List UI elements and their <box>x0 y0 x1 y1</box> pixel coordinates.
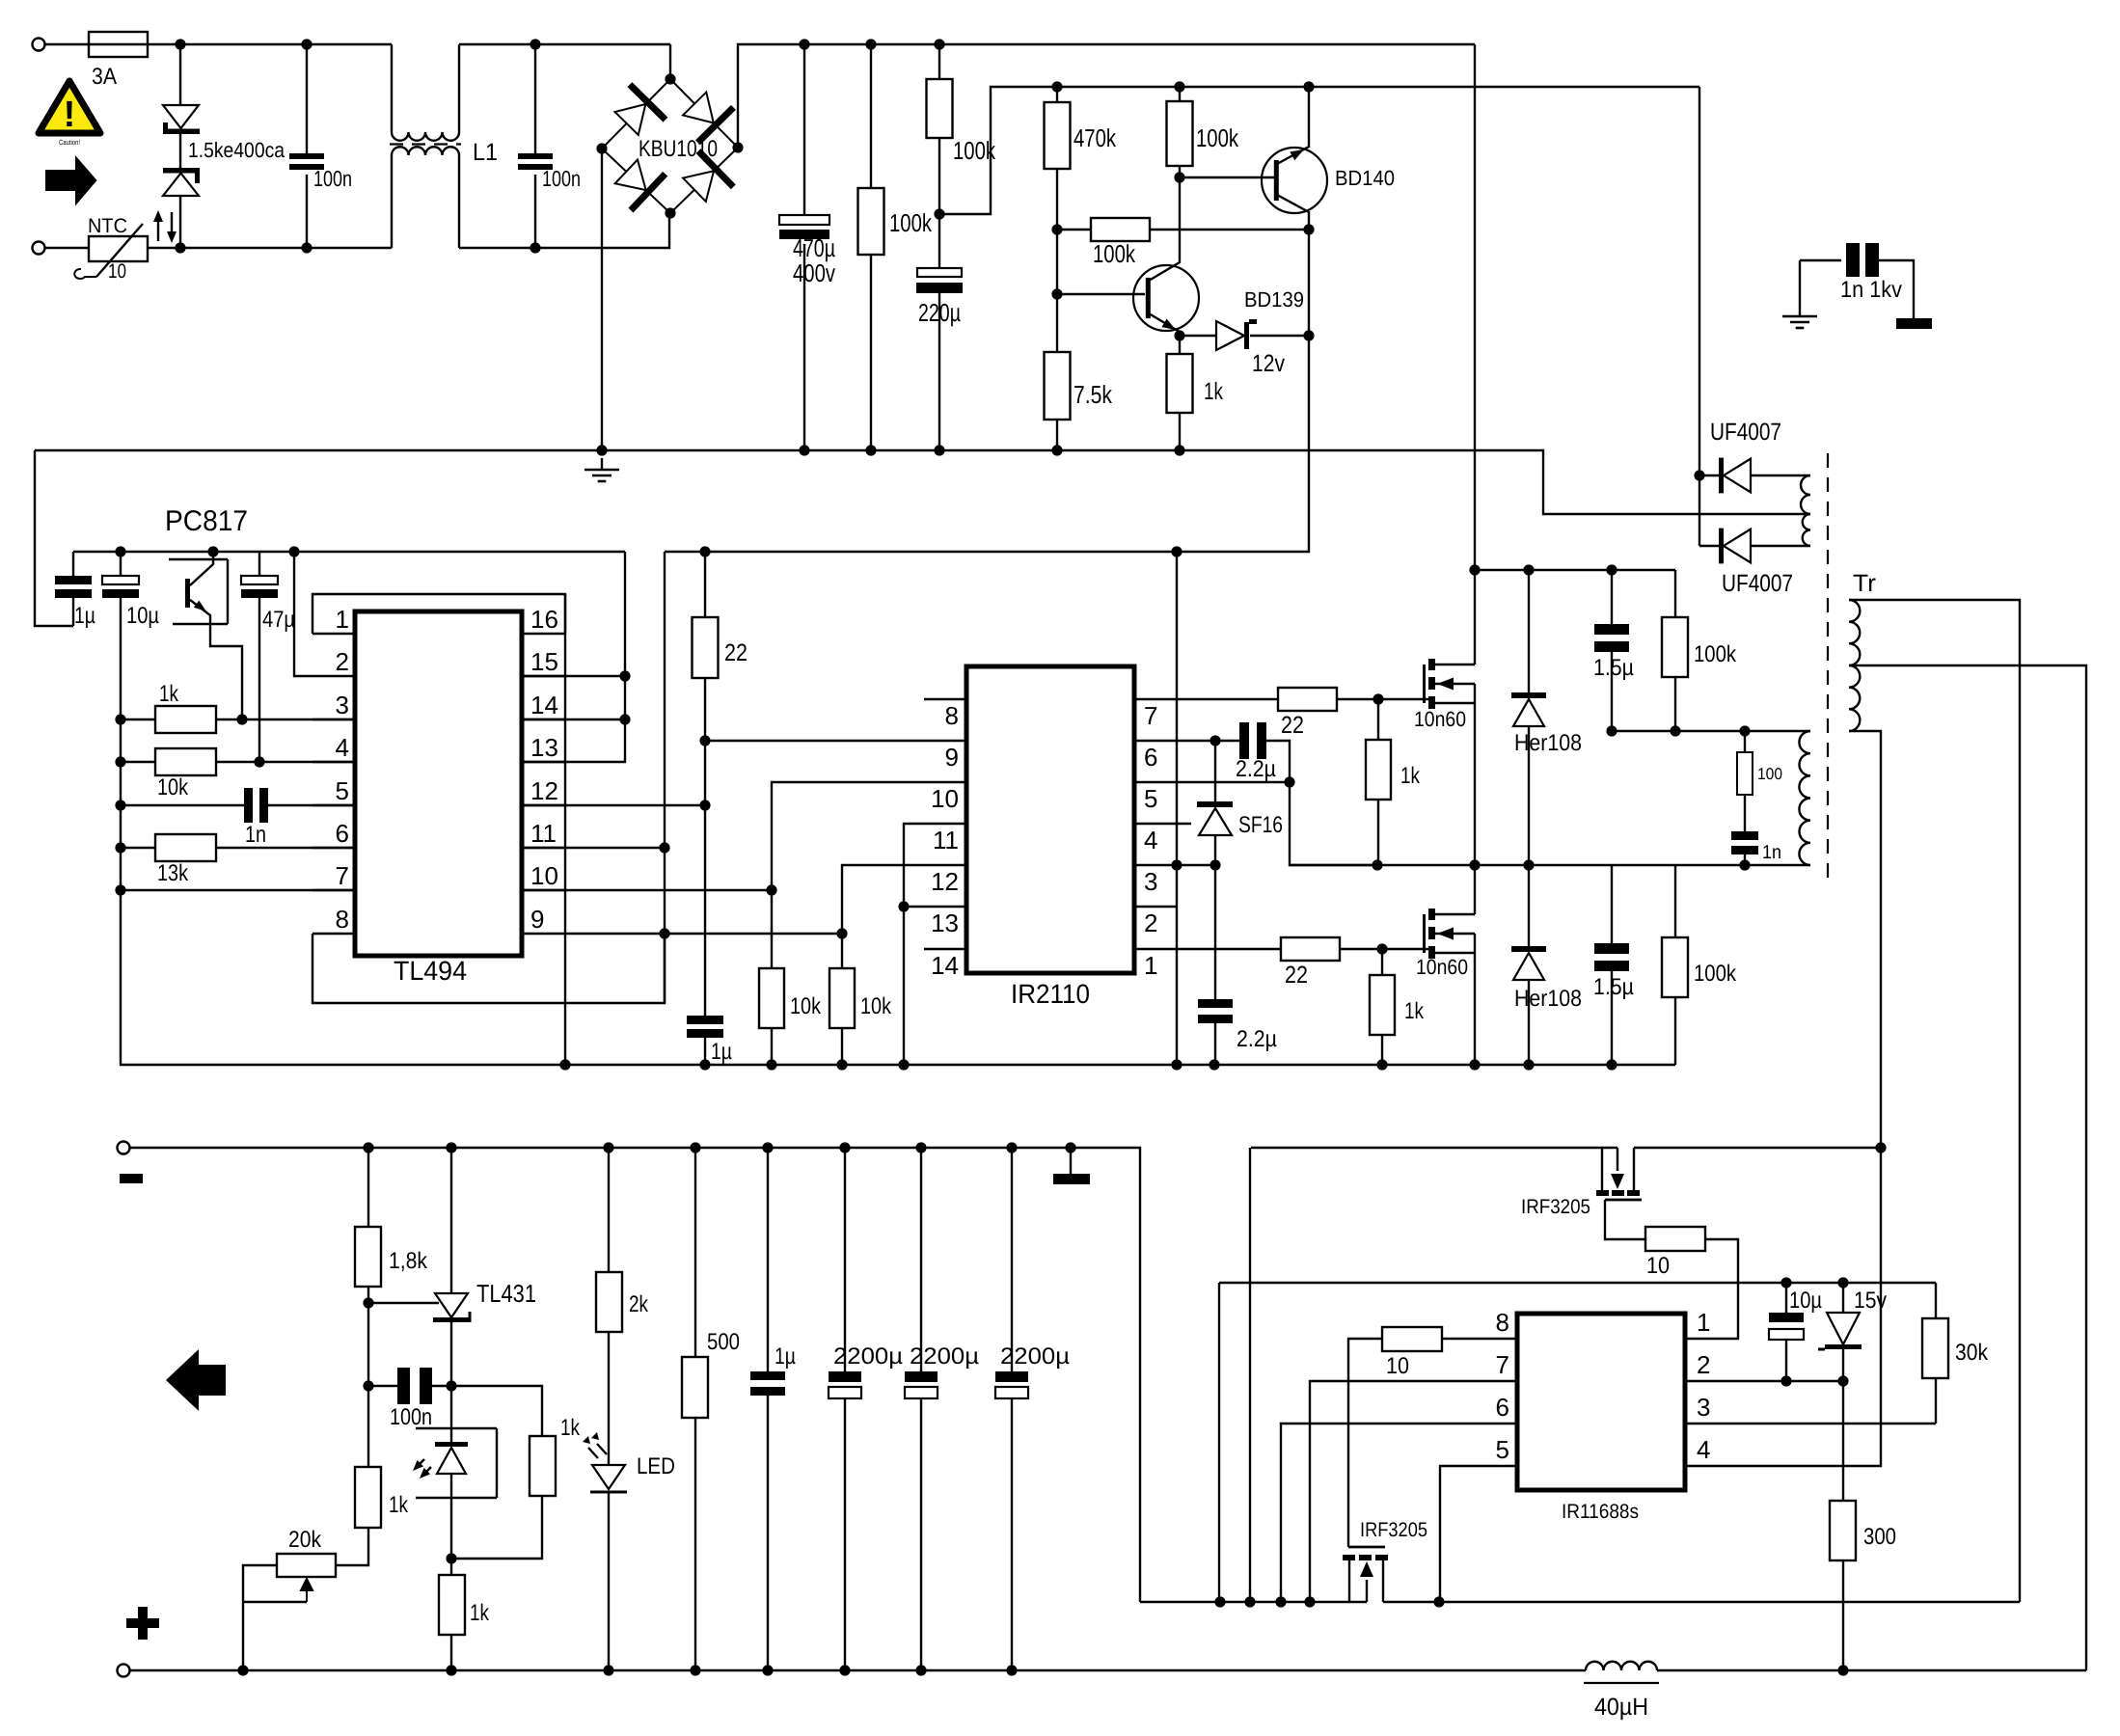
svg-text:1n 1kv: 1n 1kv <box>1840 277 1902 303</box>
dot 100k dropper rail <box>934 39 944 49</box>
wire pin15 to column <box>522 675 625 677</box>
resistor 22 gate bottom <box>1281 937 1340 961</box>
wire aux rail right to pin11 column <box>664 552 666 1003</box>
svg-text:4: 4 <box>336 733 349 762</box>
svg-text:1k: 1k <box>470 1600 490 1626</box>
wire 30k top lead <box>1935 1283 1937 1318</box>
svg-text:1k: 1k <box>560 1415 581 1441</box>
label 22 gate bottom <box>1285 962 1308 989</box>
wire IR2110 pin11 to SD column <box>904 824 966 1065</box>
dot opto LED bottom node <box>446 1553 456 1563</box>
wire 1k fb top <box>367 1386 369 1467</box>
pin number 7 IR2110 <box>1144 701 1157 730</box>
wire 100n#2 top lead <box>534 44 536 153</box>
wire ref node down <box>367 1303 369 1386</box>
fuse F1 3A <box>89 32 148 57</box>
junction dots on top rail <box>175 39 540 49</box>
wire 10u2 bottom lead <box>1785 1340 1787 1381</box>
wire TL431 anode <box>450 1322 452 1386</box>
bridge diode bottom-right arm <box>683 151 733 202</box>
capacitor 1.5u bottom <box>1594 943 1629 971</box>
svg-text:6: 6 <box>336 819 349 848</box>
label 300 <box>1863 1524 1896 1550</box>
wire IR2110 pin12 from TL494 pin9 <box>842 865 966 934</box>
pin number 11 IR2110 <box>933 826 959 854</box>
label 220u <box>918 298 961 327</box>
wire 1.5u bottom bottom lead <box>1611 971 1613 1065</box>
wire x586 vertical to ground rail <box>564 594 566 1065</box>
wire row5 right <box>268 804 355 806</box>
svg-text:NTC: NTC <box>88 215 127 237</box>
capacitor 100n comp <box>397 1368 432 1404</box>
pin number 2 IR2110 <box>1144 909 1157 937</box>
wire 1n bottom lead <box>1744 854 1746 865</box>
svg-text:2.2µ: 2.2µ <box>1236 756 1276 782</box>
label 1.5u top <box>1593 655 1634 681</box>
wire pin10 row to IR2110 pin10 riser <box>522 889 772 891</box>
svg-text:3: 3 <box>336 691 349 719</box>
dot BD139 emitter node <box>1174 330 1184 340</box>
label 1k gs top <box>1400 763 1421 789</box>
wire IR2110 pin3 row <box>1134 864 1215 866</box>
dot SF16 pin3 junction <box>1209 859 1220 870</box>
dots pins15/14 column <box>619 670 630 724</box>
wire pin12 row to VCC node <box>522 804 705 806</box>
wire column to signal ground rail <box>121 890 564 1065</box>
wire opto LED bottom <box>450 1474 452 1559</box>
dot 100k bleeder rail <box>865 39 876 49</box>
svg-text:TL431: TL431 <box>476 1279 536 1308</box>
wire pin9 row <box>522 933 665 935</box>
resistor 470k <box>1045 102 1071 169</box>
svg-text:10k: 10k <box>860 993 892 1019</box>
wire IR2110 pin7 HO to gate resistor <box>1134 698 1278 700</box>
wire BD140 collector node down <box>1308 230 1310 336</box>
wire gate resistor to gate node <box>1337 698 1428 700</box>
svg-text:1: 1 <box>1144 951 1157 980</box>
TVS diode D1 1.5ke400ca upper <box>163 105 200 134</box>
wire 470u bottom <box>803 244 805 450</box>
pin number 4 TL494 <box>336 733 349 762</box>
wire BD140 collector down across <box>1308 336 1310 450</box>
wire UF4007 bottom to winding <box>1751 545 1810 547</box>
wire to UF4007 bottom <box>1699 545 1721 547</box>
resistor 100k snubber bottom <box>1662 937 1688 997</box>
wire 100 to 1n <box>1744 795 1746 831</box>
wire 300 bottom <box>1842 1560 1844 1670</box>
node output minus terminal <box>118 1142 130 1154</box>
svg-text:470k: 470k <box>1074 123 1117 152</box>
wire 1k bottom <box>1179 413 1181 450</box>
sync common rail dots <box>1214 1596 1444 1607</box>
wire pin1 to pin16 loop <box>313 594 565 634</box>
label 100 snubber <box>1757 765 1782 783</box>
wire 2.2u lower to ground <box>1214 1023 1216 1065</box>
capacitor 1n 1kv <box>1846 243 1879 277</box>
wire IR2110 pin10 from TL494 pin10 <box>772 782 966 890</box>
svg-text:7: 7 <box>336 861 349 890</box>
svg-text:3A: 3A <box>92 64 117 90</box>
wire ref to TL431 <box>368 1302 439 1304</box>
label 1.5u bottom <box>1593 974 1634 1000</box>
resistor 10k pulldown #1 <box>759 968 784 1028</box>
wire 100n#2 bottom lead <box>534 175 536 248</box>
wire primary top row <box>1612 730 1810 732</box>
pin number 8 IR2110 <box>945 701 959 730</box>
capacitor 2200u #1 <box>829 1371 861 1398</box>
svg-text:10: 10 <box>1386 1353 1409 1379</box>
transformer Tr primary winding <box>1799 731 1810 865</box>
wire plus rail left <box>130 1669 1587 1671</box>
label 7.5k <box>1074 380 1113 409</box>
svg-text:22: 22 <box>724 639 747 666</box>
resistor 13k (TL494 pin6) <box>155 834 216 861</box>
arrows surge up/down <box>153 210 177 243</box>
wire 20k wiper <box>243 1601 307 1603</box>
wire 10u top lead <box>120 552 122 576</box>
wire top vertex drop <box>669 44 671 79</box>
dot pin10 riser junction <box>766 884 776 895</box>
wire row4 right <box>216 761 355 763</box>
resistor 10 gate #1 <box>1645 1227 1705 1251</box>
svg-text:1k: 1k <box>389 1492 409 1518</box>
pin number 12 IR2110 <box>931 867 959 896</box>
vref rail dots <box>115 546 299 556</box>
capacitor 1.5u top <box>1594 624 1629 652</box>
svg-text:IR11688s: IR11688s <box>1562 1501 1639 1523</box>
dot aux rail TL494 riser <box>1171 546 1182 556</box>
wire IR11688 pin5 <box>1440 1466 1517 1602</box>
label LED <box>637 1453 675 1479</box>
label Her108 bottom <box>1514 986 1582 1012</box>
svg-text:1n: 1n <box>245 822 266 848</box>
dot collector/zener node <box>1303 224 1314 340</box>
wire primary ground rail <box>35 450 1810 514</box>
wire 2.2u to VS <box>1266 741 1290 782</box>
wire vcc line 1330 <box>1219 1282 1936 1284</box>
svg-text:1,8k: 1,8k <box>389 1248 428 1274</box>
svg-text:9: 9 <box>945 743 959 772</box>
label 10k #1 <box>790 993 822 1019</box>
wire Her108 bottom cathode <box>1528 865 1530 946</box>
regulator TL431 <box>433 1293 470 1322</box>
dot 47u junction row4 <box>254 756 264 767</box>
bridge diode top-right arm <box>683 93 733 143</box>
resistor 100k snubber top <box>1662 617 1688 677</box>
wire 1u VCC bottom <box>704 1038 706 1065</box>
wire 10#1 to IR11688 pin1 <box>1686 1239 1738 1339</box>
svg-text:100n: 100n <box>390 1404 432 1430</box>
terminal bar chassis <box>1896 318 1932 329</box>
label 400v <box>793 258 835 287</box>
arrow symbol output direction <box>166 1349 226 1411</box>
wire junction to aux rail riser <box>939 87 1057 214</box>
label 10u sync <box>1789 1288 1822 1314</box>
wire aux 12v to left rail <box>1177 450 1309 552</box>
pin number 1 TL494 <box>336 605 349 634</box>
svg-text:L1: L1 <box>473 139 498 166</box>
svg-text:IR2110: IR2110 <box>1011 979 1090 1009</box>
wire 1k low top <box>450 1559 452 1575</box>
wire vcc line drop left <box>1218 1283 1220 1602</box>
svg-text:SF16: SF16 <box>1238 812 1283 838</box>
label 1k fb <box>389 1492 409 1518</box>
wire top rail to TVS D1 <box>179 44 181 104</box>
label 10k row4 <box>157 774 189 800</box>
wire 2200u#1 bottom <box>844 1398 846 1670</box>
wire 2200u#2 top <box>920 1148 922 1371</box>
label 10 (NTC value) <box>108 260 126 283</box>
svg-text:5: 5 <box>1144 784 1157 813</box>
inductor 40uH <box>1584 1662 1659 1683</box>
wire row3 right <box>216 719 355 720</box>
minus rail dots <box>363 1142 1075 1153</box>
svg-text:12v: 12v <box>1252 350 1285 377</box>
wire IR11688 pin7 <box>1310 1381 1517 1602</box>
svg-text:2k: 2k <box>629 1291 649 1317</box>
label 2.2u lower <box>1237 1026 1277 1052</box>
wire 220u top lead <box>938 214 940 268</box>
svg-text:!: ! <box>64 95 76 135</box>
svg-text:16: 16 <box>530 605 558 634</box>
pin number 12 TL494 <box>530 776 558 805</box>
wire 1k top <box>1179 336 1181 354</box>
thermistor NTC 10 <box>74 224 148 279</box>
wire zener to BD140 collector line <box>1250 335 1309 337</box>
label PC817 <box>165 505 248 537</box>
wire 47u top lead <box>258 552 260 576</box>
svg-text:2: 2 <box>336 647 349 676</box>
wire HV snubber row <box>1475 569 1675 571</box>
resistor 1k (TL494 pin3) <box>155 706 216 733</box>
dots vcc line <box>1780 1277 1848 1288</box>
TL494 left pin stubs <box>313 634 355 934</box>
svg-text:100k: 100k <box>1196 123 1239 152</box>
pin number 2 TL494 <box>336 647 349 676</box>
wire 100k top (BD139 load) <box>1179 87 1181 101</box>
resistor 1k gate-source top <box>1366 740 1391 800</box>
pin number 10 IR2110 <box>931 784 959 813</box>
wire 10k#2 bottom <box>841 1028 843 1065</box>
label 470u <box>793 233 835 262</box>
svg-text:10k: 10k <box>157 774 189 800</box>
resistor 100k BD139 load <box>1167 101 1193 166</box>
svg-text:TL494: TL494 <box>394 956 467 986</box>
wire 2200u#2 bottom <box>920 1398 922 1670</box>
pin number 13 IR2110 <box>931 909 959 937</box>
label 13k row6 <box>157 860 189 886</box>
wire HV to top MOSFET drain <box>1474 570 1476 665</box>
pin number 15 TL494 <box>530 647 558 676</box>
svg-text:BD139: BD139 <box>1244 287 1304 312</box>
label 1u out <box>775 1343 796 1370</box>
svg-text:7.5k: 7.5k <box>1074 380 1113 409</box>
op-amp IC TL494 box <box>355 611 522 956</box>
wire 100k snubber bottom top lead <box>1674 865 1676 937</box>
wire NTC to L1 bottom <box>148 247 392 249</box>
label 100k dropper <box>953 136 996 165</box>
svg-text:Her108: Her108 <box>1514 730 1582 756</box>
wire L1 top winding out <box>458 44 460 132</box>
capacitor 2.2u lower <box>1198 999 1233 1023</box>
label 2200u #1 <box>833 1343 903 1370</box>
wire N terminal to NTC <box>45 247 90 249</box>
transformer core line <box>1827 453 1829 880</box>
wire SF16 anode down <box>1214 835 1216 865</box>
svg-text:14: 14 <box>530 691 558 719</box>
label UF4007 bottom <box>1722 570 1793 597</box>
wire Her108 top cathode <box>1528 570 1530 692</box>
wire 220u bottom lead <box>938 293 940 450</box>
wire aux 12v rail left portion <box>665 551 1177 553</box>
svg-text:400v: 400v <box>793 258 835 287</box>
label 470k <box>1074 123 1117 152</box>
label 1n 1kv <box>1840 277 1902 303</box>
pin number 4 IR11688s <box>1697 1435 1710 1464</box>
potentiometer 20k <box>277 1554 336 1602</box>
label 2200u #2 <box>910 1343 979 1370</box>
wire opto LED top <box>450 1386 452 1445</box>
dot tl431 ref node <box>363 1297 373 1308</box>
dot aux rect node <box>1694 470 1704 480</box>
TVS diode D2 1.5ke400ca lower <box>163 168 200 196</box>
label 47u <box>262 607 295 633</box>
svg-text:IRF3205: IRF3205 <box>1521 1196 1590 1218</box>
capacitor 2200u #3 <box>995 1371 1028 1398</box>
node AC line input terminal N <box>33 242 45 255</box>
resistor 1k low <box>439 1575 465 1635</box>
label 15v <box>1854 1288 1887 1314</box>
svg-text:8: 8 <box>1496 1308 1509 1337</box>
label 2.2u top <box>1236 756 1276 782</box>
dot 100n right node <box>446 1380 456 1391</box>
core lines of L1 <box>390 143 461 145</box>
svg-text:9: 9 <box>530 905 544 934</box>
dot BD140 base node <box>1174 172 1184 182</box>
resistor 30k <box>1922 1318 1948 1378</box>
wire 1n1kv left lead <box>1800 259 1841 261</box>
wire IR2110 pin10 10k pulldown lead <box>771 890 773 968</box>
wire 10u2 top lead <box>1785 1283 1787 1313</box>
wire 1u top lead <box>72 552 74 576</box>
wire phase node row <box>1290 864 1810 866</box>
wire L1 to bridge top corner <box>459 43 670 45</box>
wire minus tap stub <box>1070 1148 1072 1174</box>
wire SF16 column to 2.2u lower <box>1214 865 1216 999</box>
svg-text:2200µ: 2200µ <box>833 1343 903 1370</box>
wire BD139 base <box>1057 293 1145 295</box>
wire phase to bottom MOSFET drain <box>1474 865 1476 914</box>
dot PC817 emitter junction <box>236 714 247 724</box>
svg-text:14: 14 <box>931 951 959 980</box>
wire 1k par bottom <box>451 1496 542 1559</box>
dot 100k/220u junction <box>934 208 944 219</box>
wire 100n right lead <box>432 1385 451 1387</box>
label 1n row5 <box>245 822 266 848</box>
label plus symbol <box>126 1607 159 1640</box>
wire row3 left <box>121 719 155 720</box>
aux rail dots <box>1051 81 1314 92</box>
pin number 13 TL494 <box>530 733 558 762</box>
svg-text:11: 11 <box>530 819 557 848</box>
pin number 5 IR11688s <box>1496 1435 1509 1464</box>
svg-text:10k: 10k <box>790 993 822 1019</box>
wire secondary bottom tap <box>1849 731 1881 1148</box>
wire 10k#2 top lead <box>841 934 843 968</box>
svg-text:4: 4 <box>1144 826 1157 854</box>
caution triangle sign <box>39 81 100 147</box>
wire bridge - to primary ground <box>601 149 603 450</box>
wire 30k bottom lead <box>1935 1378 1937 1424</box>
wire 22ohm to VCC node <box>704 678 706 1016</box>
label BD139 <box>1244 287 1304 312</box>
wire emitter node to zener <box>1180 335 1215 337</box>
pin number 1 IR2110 <box>1144 951 1157 980</box>
resistor 1k feedback <box>355 1467 381 1528</box>
label 1k par <box>560 1415 581 1441</box>
wire 470k junction to 100k-h <box>1057 229 1091 231</box>
wire L1 to bridge bottom corner <box>459 213 669 248</box>
label 30k <box>1955 1340 1989 1366</box>
svg-text:220µ: 220µ <box>918 298 961 327</box>
label 1k low <box>470 1600 490 1626</box>
wire secondary top tap <box>1849 600 2020 1602</box>
wire row5 left <box>121 804 244 806</box>
wire row7 (pin7) <box>121 889 355 891</box>
wire VS to phase corner <box>1290 782 1377 865</box>
resistor 22 (VCC feed) <box>693 617 719 678</box>
dot 470u top rail <box>799 39 809 49</box>
svg-text:10µ: 10µ <box>126 603 159 629</box>
zener diode 15v <box>1818 1313 1868 1349</box>
svg-text:100k: 100k <box>1694 641 1737 667</box>
svg-text:1n: 1n <box>1762 842 1781 863</box>
label 40uH <box>1594 1694 1648 1721</box>
diode UF4007 bottom <box>1719 529 1751 564</box>
wire 1k gs bottom bottom lead <box>1381 1035 1383 1065</box>
arrow BD140 emitter <box>1290 149 1304 160</box>
capacitor 100n X-cap #1 <box>289 153 324 170</box>
diode SF16 bootstrap <box>1197 801 1233 835</box>
svg-text:Caution!: Caution! <box>59 138 80 147</box>
wire IR2110 pin1 LO to gate resistor <box>1134 948 1281 950</box>
wire TL431 cathode top <box>450 1148 452 1293</box>
svg-text:1µ: 1µ <box>775 1343 796 1370</box>
svg-text:100n: 100n <box>542 166 581 191</box>
wire UF4007 top to winding <box>1751 475 1810 476</box>
svg-text:10n60: 10n60 <box>1416 955 1468 979</box>
junction dot bridge minus on ground rail <box>596 445 607 455</box>
wire 100k bleeder bottom <box>870 255 872 450</box>
svg-text:10: 10 <box>931 784 959 813</box>
wire row6 left <box>121 847 155 849</box>
op-amp IC IR2110 box <box>966 666 1134 973</box>
svg-text:UF4007: UF4007 <box>1710 419 1781 446</box>
optocoupler PC817 phototransistor <box>185 552 242 719</box>
label 1.5ke400ca <box>188 138 285 162</box>
dot gate node bottom <box>1376 943 1387 954</box>
label L1 <box>473 139 498 166</box>
wire between TVS diodes <box>179 134 181 168</box>
capacitor 100n X-cap #2 <box>518 153 553 170</box>
dot VS junction <box>1284 776 1294 787</box>
capacitor 1u output <box>750 1371 785 1396</box>
wire 1k par top <box>451 1386 542 1436</box>
svg-text:100n: 100n <box>313 166 352 191</box>
diode UF4007 top <box>1719 458 1751 494</box>
bridge rectifier KBU1010 outline <box>602 79 738 213</box>
wire 7.5k top <box>1056 294 1058 352</box>
